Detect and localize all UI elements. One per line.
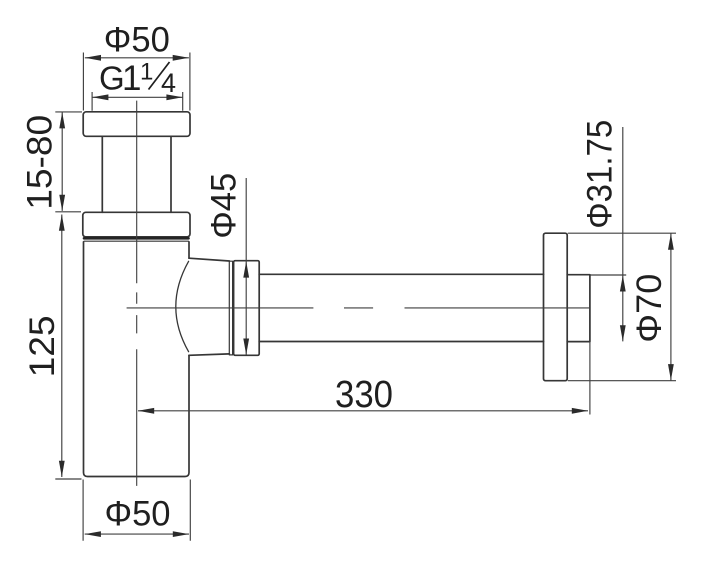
svg-text:Φ50: Φ50 — [105, 495, 171, 534]
arrows Phi31.75 — [620, 275, 626, 291]
svg-text:Φ70: Φ70 — [630, 274, 669, 343]
arrows Phi50 bottom — [85, 531, 101, 537]
dim 330: line + right extension — [138, 342, 590, 415]
outlet arc — [176, 261, 189, 351]
dim G 1-1/4: extensions + line — [92, 92, 183, 111]
arrows 125 — [59, 215, 65, 231]
svg-text:Φ31.75: Φ31.75 — [581, 120, 620, 229]
dim Phi45 leader — [245, 178, 247, 355]
centerline vertical — [136, 101, 138, 486]
arrows 15-80 — [59, 112, 65, 128]
arrows Phi50 top — [85, 55, 101, 61]
body top nut flange — [83, 212, 190, 237]
gasket — [84, 237, 189, 240]
dim Phi31.75: leader + extensions — [591, 127, 627, 341]
coupling nut — [234, 261, 260, 356]
body — [84, 242, 190, 477]
washer — [229, 261, 232, 355]
svg-text:15-80: 15-80 — [21, 115, 60, 210]
svg-text:330: 330 — [335, 374, 393, 416]
svg-text:4: 4 — [161, 68, 176, 98]
inlet pipe — [102, 136, 171, 212]
arrows Phi45 — [243, 261, 249, 277]
outlet neck — [189, 258, 229, 355]
dim Phi50 bottom: extensions + line — [83, 480, 190, 541]
arrows Phi70 — [668, 234, 674, 250]
dim Phi70: extensions + line — [568, 233, 676, 381]
wall flange — [544, 233, 568, 381]
fraction slash — [149, 62, 170, 90]
svg-text:Φ50: Φ50 — [104, 21, 170, 60]
dim 125: line + bottom extension — [55, 215, 81, 480]
horizontal pipe — [259, 274, 543, 341]
dim 15-80: extensions + line — [55, 112, 82, 212]
svg-text:1: 1 — [122, 59, 141, 98]
svg-text:1: 1 — [140, 59, 153, 86]
svg-text:G: G — [99, 60, 125, 97]
arrows G 1-1/4 — [92, 94, 108, 100]
dim Phi50 top: extensions + line — [83, 53, 189, 111]
stub pipe — [567, 275, 590, 342]
svg-text:Φ45: Φ45 — [205, 173, 244, 239]
top flange — [83, 112, 190, 137]
svg-text:125: 125 — [23, 315, 62, 377]
arrows 330 — [138, 408, 154, 414]
centerline horizontal — [127, 307, 590, 309]
